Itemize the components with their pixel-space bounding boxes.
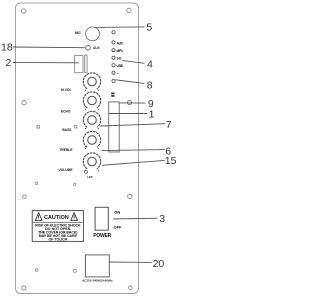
svg-text:AUX: AUX [93,46,101,50]
MIC jack [86,27,100,41]
SD slot marks [111,93,114,95]
jack bar [85,55,87,73]
svg-text:LED: LED [87,175,93,179]
AUX jack [86,46,91,51]
svg-text:OFF: OFF [114,225,123,230]
screw mid-left [22,101,26,105]
knob M.VOL [83,73,100,91]
callout line 8 [116,80,145,84]
svg-text:2: 2 [6,57,12,69]
LED 1 [112,31,115,34]
svg-text:CAUTION: CAUTION [44,215,69,221]
screw right lower [128,194,132,198]
callout line 3 [113,217,157,220]
LED 4 [112,56,115,59]
hole mid 3 [35,182,37,184]
screw bottom-right [129,286,133,290]
svg-text:1: 1 [149,108,155,120]
LED 5 [112,64,115,67]
svg-text:MIC: MIC [75,31,82,35]
hole mid 2 [74,183,76,185]
input jack 2 [75,55,83,72]
AC inlet [85,255,109,277]
LED 3 [112,49,115,52]
screw mid-right [128,101,132,105]
svg-text:AC110-240V(50-60)Hz: AC110-240V(50-60)Hz [82,278,113,282]
caution triangle right [71,213,78,221]
svg-text:POWER: POWER [93,233,111,239]
svg-text:USB: USB [117,64,124,68]
svg-text:OF TOUCH: OF TOUCH [48,237,67,241]
power LED [84,170,87,173]
hole bottom 2 [73,269,76,272]
hole left [37,126,40,129]
screw bottom-left [22,286,26,290]
knob TREBLE [83,131,100,149]
knob VOLUME [83,153,100,171]
hole bottom 1 [35,269,38,272]
svg-text:MP3: MP3 [117,49,123,53]
svg-text:M.VOL: M.VOL [61,88,71,92]
USB/SD slot plate [109,102,120,152]
svg-text:4: 4 [147,58,153,70]
svg-text:ECHO: ECHO [61,110,71,114]
svg-text:TREBLE: TREBLE [59,148,73,152]
screw left lower [23,195,27,199]
caution header separator [32,221,83,223]
svg-text:VOLUME: VOLUME [58,168,73,172]
svg-text:18: 18 [1,42,13,54]
svg-text:3: 3 [159,213,165,225]
callout line 1 [109,113,147,115]
svg-text:ON: ON [114,209,120,214]
callout line 6 [102,150,165,151]
svg-text:5: 5 [146,22,152,34]
svg-text:20: 20 [153,258,165,270]
knob ECHO [83,92,100,110]
callout line 15 [102,160,165,165]
callout line 7 [100,124,165,126]
svg-text:--: -- [117,71,119,75]
caution label frame [32,211,83,242]
screw top-left [22,9,26,13]
svg-text:15: 15 [165,155,177,167]
svg-text:AUX: AUX [117,41,124,45]
callout line 20 [110,261,152,263]
screw top-right [127,8,131,12]
svg-text:BASS: BASS [62,128,72,132]
LED 7 [112,79,115,82]
hole mid 1 [74,125,77,128]
svg-text:7: 7 [166,119,172,131]
caution triangle left [35,213,42,221]
svg-text:8: 8 [147,79,153,91]
callout line 18 [13,46,85,49]
knob BASS [83,111,100,129]
panel outline [16,3,139,294]
callout line 2 [13,61,79,63]
LED 2 [112,41,115,44]
callout line 9 [120,102,146,104]
LED 6 [112,71,115,74]
power switch [95,207,108,230]
callout line 5 [96,26,145,29]
callout line 4 [123,61,145,64]
svg-text:SD: SD [117,57,123,61]
